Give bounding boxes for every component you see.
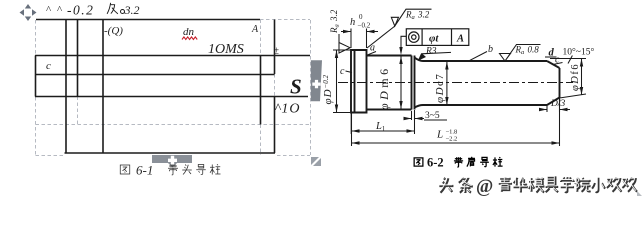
table border H5 bottom (65, 152, 276, 154)
c head leader (346, 71, 353, 73)
svg-text:b: b (488, 44, 493, 55)
table dashed gridline col5 top (260, 20, 262, 56)
phiDf6 dim line (581, 59, 583, 96)
table dashed gridline col2 lower (77, 97, 79, 125)
caption fig 6-1 (120, 165, 130, 174)
arrow phiDm6 bottom (399, 101, 402, 109)
svg-text:3~5: 3~5 (425, 111, 440, 121)
table dashed gridline col5 lower (260, 125, 262, 156)
groove walls (412, 56, 415, 110)
D/3 ext lines (547, 98, 560, 112)
D/3 dim line (540, 109, 570, 111)
arrow phiDf6 bottom (580, 87, 583, 95)
dim phiD line (336, 50, 338, 113)
svg-text:c: c (46, 60, 51, 72)
b label leader (469, 52, 487, 61)
taper bottom (547, 98, 560, 106)
a label leader (367, 52, 376, 56)
svg-text:D/3: D/3 (550, 99, 566, 109)
svg-text:^: ^ (57, 4, 63, 16)
d underline (545, 56, 557, 58)
L dim line (352, 142, 560, 144)
svg-text:φDc7: φDc7 (434, 73, 446, 103)
dim h arrow lines (341, 31, 378, 33)
insert-row plus tab (152, 155, 192, 168)
svg-text:−0.2: −0.2 (358, 22, 371, 30)
R3 leader (419, 52, 452, 60)
arrow L1 left (352, 129, 360, 132)
table border H4 (35, 96, 308, 98)
arrowheads (335, 30, 583, 145)
c7 top with fillet (415, 58, 548, 62)
svg-text:φDf6: φDf6 (570, 63, 581, 91)
arrow L1 right (407, 129, 415, 132)
table border H1 top (36, 19, 260, 21)
svg-text:^: ^ (46, 4, 52, 16)
table dashed gridline left (35, 20, 37, 155)
svg-text:±: ± (274, 46, 280, 57)
table border V-left (35, 56, 37, 97)
arrow D3 left (539, 108, 547, 111)
arrow h right (367, 30, 375, 33)
arrow D3 right (560, 108, 568, 111)
Ra3.2 top symbol (391, 9, 431, 26)
table border H3 (35, 74, 275, 76)
phiDm6 dim line (400, 56, 402, 109)
svg-text:φDm6: φDm6 (377, 65, 391, 110)
L ext lines (352, 98, 560, 146)
svg-text:φt: φt (429, 33, 439, 45)
move handle icon (20, 4, 37, 21)
arrow L right (552, 141, 560, 144)
phiDf6 ext bottom slant (560, 94, 587, 98)
glyph ji of 及。3.2 (107, 3, 118, 14)
Ra3.2 top leader (367, 26, 395, 48)
svg-text:Ra 3.2: Ra 3.2 (405, 10, 430, 22)
svg-text:−1.8: −1.8 (446, 129, 458, 136)
arrow 3to5 left (404, 117, 412, 120)
svg-text:h: h (350, 17, 355, 28)
svg-text:1OMS: 1OMS (208, 42, 244, 57)
table dashed gridline col6 mid (274, 74, 276, 97)
phiDc7 dim line (446, 62, 448, 106)
svg-text:−2.2: −2.2 (446, 136, 458, 143)
svg-text:6-1: 6-1 (136, 163, 153, 178)
table border V1 (65, 20, 67, 154)
corner mark (637, 191, 642, 196)
watermark (438, 176, 637, 197)
svg-text:dn: dn (183, 26, 195, 38)
svg-text:Ra 0.8: Ra 0.8 (515, 45, 540, 57)
svg-text:A: A (456, 34, 464, 45)
svg-text:d: d (549, 48, 555, 59)
table dashed gridline right (310, 20, 312, 155)
angle leader (568, 56, 572, 64)
svg-text:@: @ (476, 177, 493, 197)
table border H2 (35, 55, 310, 57)
head outline (351, 50, 367, 113)
arrow R3 (419, 54, 427, 61)
table border V2 (77, 20, 79, 97)
arrow tol leader (399, 47, 402, 55)
shaft m6 bottom (367, 109, 412, 111)
shaft m6 top (367, 55, 412, 57)
L1 ext line right (351, 110, 414, 134)
c7 bottom (415, 105, 548, 108)
svg-text:Ra 3.2: Ra 3.2 (329, 9, 341, 34)
dim 3~5 (405, 111, 447, 120)
table dashed gridline bottom (36, 155, 311, 157)
L1 dim line (352, 130, 415, 132)
dim h ext lines (351, 29, 367, 49)
c taper underline (553, 63, 563, 65)
head chamfer line (354, 50, 356, 113)
arrow phiDc7 top (445, 62, 448, 70)
svg-text:a: a (370, 43, 375, 54)
svg-text:c: c (340, 66, 345, 77)
arrow phiDf6 top (580, 59, 583, 67)
table border V5 upper (274, 20, 276, 75)
caption fig 6-2 (414, 158, 423, 166)
svg-text:10°~15°: 10°~15° (563, 47, 595, 58)
red squiggle under dn (182, 37, 197, 40)
table border V5 lower (274, 97, 276, 154)
centerline (338, 82, 573, 84)
arrow phiDc7 bottom (445, 97, 448, 105)
svg-text:A: A (251, 24, 259, 35)
watermark engraving highlight (438, 176, 636, 192)
table border V4 (260, 56, 262, 125)
Ra3.2 left symbol (339, 34, 350, 53)
text Ra3.2 vertical (329, 9, 341, 34)
insert-col plus tab right (311, 60, 322, 101)
arrow phiD bottom (335, 105, 338, 113)
dim phiD ext lines (333, 50, 350, 113)
text 。3.2 (121, 10, 125, 14)
svg-text:^1O: ^1O (275, 102, 301, 117)
tolerance frame leader (401, 36, 406, 50)
table dashed gridline top right (260, 19, 310, 21)
arrow phiD top (335, 50, 338, 58)
phiDf6 ext top (550, 58, 586, 60)
resize handle (311, 157, 319, 165)
svg-text:c: c (555, 55, 560, 66)
svg-text:R3: R3 (425, 47, 437, 57)
taper top (547, 61, 560, 68)
arrow h left (343, 30, 351, 33)
concentricity symbol (409, 32, 419, 42)
svg-text:0: 0 (359, 13, 363, 21)
arrow phiDm6 top (399, 56, 402, 64)
table border V3 (102, 20, 104, 154)
svg-text:L: L (436, 129, 443, 141)
svg-text:-(Q): -(Q) (104, 25, 123, 37)
table dashed gridline row4 (36, 124, 311, 126)
svg-text:S: S (290, 75, 302, 99)
arrow L left (352, 141, 360, 144)
svg-text:6-2: 6-2 (427, 156, 444, 170)
tolerance frame (406, 29, 469, 46)
end face (559, 68, 561, 98)
svg-text:3.2: 3.2 (124, 3, 140, 17)
svg-text:-0.2: -0.2 (67, 3, 94, 18)
arrow 3to5 right (415, 117, 423, 120)
Ra0.8 symbol (500, 45, 541, 62)
